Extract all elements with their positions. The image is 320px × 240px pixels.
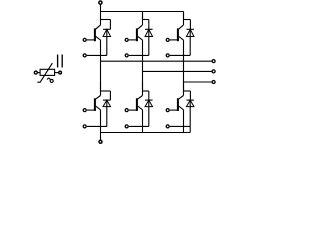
IGBT T5 emitter lead: [138, 106, 143, 133]
IGBT T4 gate terminal G4: [83, 109, 96, 112]
IGBT T1 emitter lead: [96, 36, 101, 61]
thermistor R1 theta symbol: [47, 78, 53, 82]
phase terminal V: [212, 70, 215, 73]
phase terminal W: [212, 81, 215, 84]
IGBT T1 collector lead: [96, 12, 111, 30]
phase terminal U: [212, 60, 215, 63]
IGBT T3 emitter lead: [179, 36, 184, 82]
auxiliary emitter terminal E3: [166, 54, 190, 57]
DC+ terminal: [99, 1, 102, 12]
IGBT T3 collector lead: [179, 12, 191, 30]
auxiliary emitter terminal E6: [166, 125, 190, 128]
thermistor isolation bars: [58, 55, 63, 68]
IGBT T2 emitter lead: [138, 36, 143, 71]
IGBT T3 gate bar: [177, 28, 179, 41]
phase output V wire: [143, 70, 212, 72]
IGBT T6 collector lead: [179, 82, 191, 99]
IGBT T2 gate terminal G2: [125, 38, 138, 41]
diode D4: [103, 91, 111, 126]
DC+ bus drop to T3 collector: [142, 12, 144, 20]
thermistor R1 right terminal: [55, 71, 62, 74]
node phase V vertical wire: [142, 71, 144, 91]
thermistor R1 left terminal: [34, 71, 40, 74]
diode D1: [103, 20, 111, 56]
IGBT T6 emitter lead: [179, 106, 184, 133]
DC- bus wire: [101, 132, 191, 134]
IGBT T4 emitter lead: [96, 106, 101, 133]
phase output U wire: [101, 60, 212, 62]
diode D6 cathode-to-bus extension wire: [189, 127, 191, 133]
diode D3: [186, 20, 194, 56]
diode D5: [145, 91, 153, 126]
DC+ bus wire: [101, 11, 184, 13]
diode D2: [145, 20, 153, 56]
IGBT T3 gate terminal G3: [166, 38, 179, 41]
IGBT T2 gate bar: [136, 28, 138, 41]
auxiliary emitter terminal E4: [83, 125, 107, 128]
IGBT T5 gate bar: [136, 98, 138, 111]
IGBT T1 gate terminal G1: [83, 38, 96, 41]
thermistor R1 (NTC) body: [40, 69, 55, 75]
auxiliary emitter terminal E5: [125, 125, 149, 128]
IGBT T2 collector lead: [138, 12, 149, 30]
auxiliary emitter terminal E2: [125, 54, 149, 57]
node phase W vertical wire: [183, 82, 185, 92]
DC+ bus drop to T5 collector: [183, 12, 185, 20]
thermistor R1 strike-through stroke: [37, 63, 52, 82]
auxiliary emitter terminal E1: [83, 54, 107, 57]
IGBT T4 gate bar: [94, 98, 96, 111]
IGBT T6 gate terminal G6: [166, 109, 179, 112]
phase output W wire: [184, 81, 212, 83]
IGBT T6 gate bar: [177, 98, 179, 111]
IGBT T1 gate bar: [94, 28, 96, 41]
DC- terminal: [99, 133, 102, 144]
diode D6: [186, 91, 194, 126]
IGBT T5 gate terminal G5: [125, 109, 138, 112]
IGBT T4 collector lead: [96, 82, 111, 99]
IGBT T5 collector lead: [138, 82, 149, 99]
node phase U vertical wire: [100, 61, 102, 91]
